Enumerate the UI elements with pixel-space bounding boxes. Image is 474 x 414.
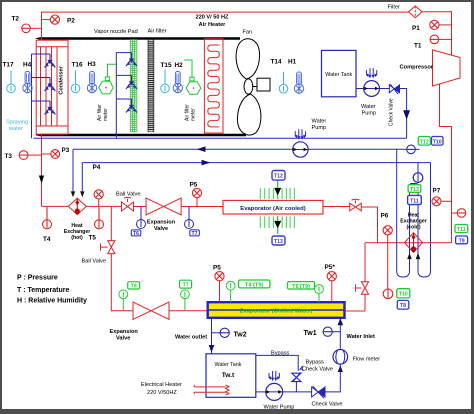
- svg-text:H2: H2: [175, 62, 184, 69]
- wire: BV2 down to suction line: [361, 207, 377, 243]
- svg-text:P2: P2: [67, 18, 75, 25]
- svg-text:Tw1: Tw1: [304, 330, 317, 337]
- wire: suction line to compressor: [365, 243, 452, 282]
- heat exchanger (hot): [64, 198, 91, 241]
- flow meter: [333, 350, 380, 365]
- airflow arrow out of evaporator: [274, 221, 281, 229]
- label box T6'(T9): [288, 282, 315, 290]
- svg-text:Ball Valve: Ball Valve: [116, 192, 140, 198]
- label: Fan: [243, 30, 253, 36]
- sensor H1: [288, 59, 304, 94]
- sensor green evap out: [315, 285, 324, 303]
- pad spray pipe: [116, 53, 131, 139]
- svg-text:Air Heater: Air Heater: [199, 22, 227, 28]
- svg-text:Water Inlet: Water Inlet: [347, 334, 376, 340]
- svg-text:H3: H3: [88, 61, 97, 68]
- wire: line B drop to hot HX: [81, 163, 83, 193]
- svg-text:H4: H4: [23, 62, 32, 69]
- svg-text:H1: H1: [288, 59, 297, 66]
- vapor nozzle pad: [130, 40, 137, 132]
- legend: [17, 275, 87, 305]
- svg-text:T6: T6: [133, 231, 139, 237]
- svg-text:Condenser: Condenser: [59, 66, 65, 95]
- sensor T15: [161, 62, 172, 93]
- gauge P5 chilled: [213, 265, 224, 303]
- svg-text:T10: T10: [399, 292, 408, 298]
- air filter meter 2: [184, 60, 201, 121]
- spray nozzle row 1 (condenser): [45, 54, 56, 68]
- label box T11 green: [455, 225, 468, 234]
- water pump WP1: [293, 119, 327, 158]
- air duct bottom wall: [35, 134, 246, 136]
- wire: bypass valve to pump line: [295, 382, 297, 392]
- svg-text:T4'(T9): T4'(T9): [245, 283, 264, 289]
- svg-text:T16: T16: [72, 62, 83, 69]
- svg-text:T10: T10: [433, 139, 442, 145]
- wire: condenser liquid line: [42, 134, 69, 206]
- svg-text:Water Pump: Water Pump: [264, 405, 295, 411]
- svg-text:Expansion: Expansion: [110, 329, 139, 335]
- svg-text:T6'(T9): T6'(T9): [292, 284, 310, 290]
- sensor green evap in: [226, 281, 235, 302]
- svg-text:Tw2: Tw2: [234, 332, 247, 339]
- svg-text:T13: T13: [274, 239, 283, 245]
- arrow into hot HX right: [80, 191, 84, 197]
- sensor T2: [12, 16, 42, 33]
- svg-text:(cold): (cold): [406, 225, 420, 231]
- svg-text:220 V/50HZ: 220 V/50HZ: [147, 390, 177, 396]
- svg-text:T12: T12: [274, 174, 283, 180]
- ball valve BV2: [350, 199, 362, 211]
- svg-text:T15: T15: [161, 62, 172, 69]
- spray nozzle row 2 (condenser): [45, 78, 56, 92]
- sensor H3: [87, 61, 96, 93]
- spray nozzle row 1 (pad): [126, 53, 137, 67]
- gauge P3: [42, 147, 70, 158]
- sensor T7: [185, 207, 200, 237]
- sensor cold HX inlet: [413, 163, 423, 183]
- label box T10 blue: [432, 137, 444, 146]
- wire: check valve down to spray line: [399, 89, 406, 139]
- svg-text:T4: T4: [43, 236, 51, 243]
- svg-text:Pump: Pump: [362, 111, 377, 117]
- svg-text:Bypass: Bypass: [271, 351, 290, 357]
- wire: line A drop to hot HX: [72, 149, 74, 192]
- label: Spraying water: [6, 120, 28, 133]
- svg-text:Flow meter: Flow meter: [353, 357, 381, 363]
- bypass check valve: [292, 360, 333, 382]
- air duct top wall: [35, 37, 240, 39]
- filter: [388, 5, 423, 18]
- sensor T3: [5, 151, 42, 160]
- svg-text:Water outlet: Water outlet: [175, 335, 207, 341]
- svg-text:Water: Water: [312, 119, 327, 125]
- svg-text:T5: T5: [89, 235, 97, 242]
- svg-text:Tw.t: Tw.t: [222, 372, 235, 379]
- label box T8 blue: [397, 300, 409, 309]
- sensor T1: [414, 35, 452, 49]
- svg-text:T : Temperature: T : Temperature: [17, 287, 69, 294]
- svg-text:Evaporator (Chilled Water): Evaporator (Chilled Water): [240, 309, 313, 315]
- svg-text:P : Pressure: P : Pressure: [17, 275, 58, 282]
- gauge P7: [432, 188, 452, 206]
- sensor Tw2: [212, 328, 247, 338]
- svg-text:P3: P3: [62, 147, 70, 154]
- fan motor: [252, 78, 270, 91]
- flow arrow down: [39, 176, 44, 184]
- ball valve BV1: [116, 192, 140, 212]
- expansion valve EV2: [110, 302, 170, 341]
- wire: condenser outlet top: [42, 12, 409, 40]
- check valve CV2: [312, 386, 343, 408]
- svg-text:P4: P4: [93, 164, 101, 171]
- svg-text:H : Relative Humidity: H : Relative Humidity: [17, 298, 87, 305]
- sensor T4: [43, 206, 52, 243]
- sensor T5: [89, 206, 104, 241]
- flow arrow down: [403, 110, 410, 120]
- svg-text:P1: P1: [412, 25, 420, 32]
- wire: filter to compressor: [422, 12, 452, 55]
- svg-text:T13: T13: [410, 187, 419, 193]
- arrow up into cold HX left tube: [407, 253, 412, 259]
- sensor T7' green: [180, 280, 192, 311]
- wire: BV1 to expansion valve: [134, 206, 147, 208]
- airflow arrow into evaporator: [274, 188, 281, 196]
- svg-text:Filter: Filter: [388, 5, 401, 11]
- wire: EV1 to evaporator: [181, 206, 223, 208]
- arrow into chilled evaporator: [338, 318, 344, 325]
- gauge P6: [381, 213, 393, 243]
- label box T10 green: [397, 289, 410, 298]
- svg-text:P5: P5: [190, 182, 198, 189]
- svg-text:Air filter: Air filter: [148, 29, 167, 35]
- svg-text:T14: T14: [271, 59, 282, 66]
- wire: compressor discharge: [440, 84, 452, 243]
- svg-text:Evaporator (Air cooled): Evaporator (Air cooled): [240, 206, 305, 212]
- gauge P4: [93, 164, 104, 206]
- heat exchanger (cold) U-tubes: [397, 149, 431, 277]
- svg-text:Ball Valve: Ball Valve: [82, 259, 106, 265]
- sensor on line A: [407, 145, 420, 154]
- sensor H4: [23, 62, 32, 93]
- water pump WP1b: [361, 68, 380, 116]
- heat exchanger (cold) element: [400, 213, 427, 253]
- svg-text:T11: T11: [410, 199, 419, 205]
- sensor T6: [131, 207, 145, 237]
- sensor T discharge right: [452, 209, 466, 218]
- wire: pump to check valve: [380, 88, 390, 90]
- wire: evaporator to BV2: [323, 206, 350, 208]
- wire: tank to pump: [256, 391, 266, 393]
- svg-text:Fan: Fan: [243, 30, 253, 36]
- svg-text:Expansion: Expansion: [147, 220, 176, 226]
- gauge P1: [412, 20, 452, 32]
- sensor T17: [3, 62, 16, 93]
- svg-text:T3: T3: [5, 153, 13, 160]
- label box T12: [272, 171, 285, 181]
- spray nozzle row 2 (pad): [126, 75, 137, 89]
- wire: chilled evap outlet right: [345, 294, 366, 311]
- svg-text:Water: Water: [361, 104, 376, 110]
- label: air heater voltage: [196, 15, 230, 29]
- svg-text:T17: T17: [3, 62, 14, 69]
- arrow into hot HX left: [71, 191, 75, 197]
- flow arrow line A: [197, 146, 206, 152]
- chilled water supply line A: [73, 148, 407, 150]
- svg-text:Valve: Valve: [154, 226, 168, 232]
- wire: tank to pump: [356, 88, 364, 90]
- svg-text:220 V/ 50 HZ: 220 V/ 50 HZ: [196, 15, 230, 21]
- gauge P5*: [325, 264, 337, 302]
- sensor H2: [173, 62, 183, 93]
- wire: liquid branch down: [111, 207, 133, 311]
- svg-text:T11: T11: [457, 227, 466, 233]
- svg-text:Bypass: Bypass: [306, 360, 325, 366]
- water inlet pipe: [340, 319, 375, 350]
- water tank 1: [322, 50, 357, 96]
- svg-text:T2: T2: [12, 16, 20, 23]
- label box T11 blue: [408, 195, 422, 204]
- fan: [236, 39, 261, 135]
- evaporator (air cooled): [223, 180, 323, 234]
- bypass line: [256, 351, 298, 371]
- svg-text:T8: T8: [400, 303, 406, 309]
- wire: EV2 to chilled evaporator: [169, 310, 208, 312]
- air heater: [204, 39, 223, 133]
- spray nozzle row 3 (pad): [126, 99, 137, 113]
- svg-text:Spraying: Spraying: [6, 120, 28, 126]
- svg-text:Check Valve: Check Valve: [389, 98, 395, 126]
- sensor T at superheat: [383, 289, 393, 299]
- expansion valve EV1: [146, 198, 181, 232]
- svg-text:T12: T12: [420, 139, 429, 145]
- label box T13: [272, 236, 285, 245]
- svg-text:Water Tank: Water Tank: [215, 362, 242, 368]
- water tank 2: [206, 354, 256, 398]
- water pump WP2: [264, 371, 295, 411]
- svg-text:P7: P7: [433, 188, 441, 195]
- arrow up into cold HX right tube: [416, 253, 421, 259]
- svg-text:Pump: Pump: [312, 125, 327, 131]
- svg-text:Vapor nozzle Pad: Vapor nozzle Pad: [94, 29, 138, 35]
- condenser: [36, 40, 68, 134]
- svg-text:water: water: [8, 126, 23, 132]
- flow arrow up to flow meter: [338, 365, 343, 372]
- arrow into tank: [209, 345, 215, 353]
- water outlet pipe: [175, 318, 212, 354]
- spray nozzle row 3 (condenser): [45, 101, 56, 115]
- label box T4'(T9): [239, 280, 271, 289]
- svg-text:Valve: Valve: [116, 336, 130, 342]
- gauge P2: [42, 15, 76, 25]
- compressor: [400, 50, 461, 86]
- svg-text:P5*: P5*: [325, 264, 336, 271]
- label: Vapor nozzle Pad: [94, 29, 138, 35]
- label box T13 green: [408, 185, 421, 193]
- svg-text:T7: T7: [183, 283, 189, 289]
- svg-text:meter: meter: [103, 108, 109, 121]
- wire: pump to check valve: [283, 391, 312, 393]
- svg-text:T6: T6: [131, 284, 137, 290]
- air filter meter 1: [97, 64, 116, 121]
- label: Air filter: [148, 29, 167, 35]
- svg-text:T7: T7: [191, 231, 197, 237]
- svg-text:T1: T1: [414, 43, 422, 50]
- check valve CV1: [389, 84, 400, 126]
- condenser spray pipe: [32, 54, 51, 138]
- svg-text:Water Tank: Water Tank: [325, 72, 352, 78]
- svg-text:meter: meter: [191, 108, 197, 121]
- svg-text:P5: P5: [213, 265, 221, 272]
- wire: check valve to flow meter: [325, 364, 340, 392]
- spray water supply line: [34, 137, 407, 139]
- svg-text:Check Valve: Check Valve: [312, 402, 343, 408]
- svg-text:Check Valve: Check Valve: [302, 367, 333, 373]
- svg-text:T9: T9: [459, 238, 465, 244]
- chilled water return line B: [82, 162, 430, 164]
- label box T12 green: [418, 137, 430, 146]
- sensor T16: [71, 62, 83, 93]
- evaporator (chilled water): [208, 302, 345, 318]
- svg-text:(hot): (hot): [71, 235, 83, 241]
- label box T9 blue: [456, 236, 468, 244]
- flow arrow line B: [202, 160, 211, 166]
- svg-text:Compressor: Compressor: [400, 65, 434, 71]
- sensor T6' green: [119, 282, 140, 311]
- sensor Tw1: [304, 327, 341, 337]
- ball valve BV3 vertical: [82, 241, 115, 265]
- electrical heater: [141, 382, 229, 396]
- svg-text:Electrical Heater: Electrical Heater: [141, 382, 182, 388]
- sensor T14: [271, 59, 288, 93]
- wire: P6 branch down: [387, 243, 389, 289]
- air filter column: [148, 40, 154, 132]
- gauge P5: [190, 182, 202, 207]
- ball valve BV4 vertical: [356, 282, 369, 295]
- svg-text:P6: P6: [381, 213, 389, 220]
- wire: hot HX outlet: [86, 205, 121, 207]
